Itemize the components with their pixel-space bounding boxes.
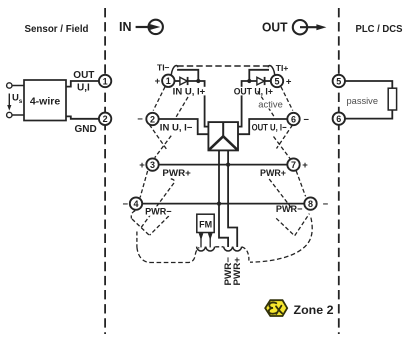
label OUT U, I+ xyxy=(233,87,274,96)
svg-text:PWR+: PWR+ xyxy=(162,168,191,179)
svg-text:Sensor / Field: Sensor / Field xyxy=(25,23,89,35)
FM arrow left xyxy=(199,233,204,248)
label PWR- left xyxy=(144,206,174,216)
svg-text:TI+: TI+ xyxy=(276,63,289,73)
terminal 7 xyxy=(287,158,299,170)
source terminal upper xyxy=(7,83,12,88)
plug contact cup 3 xyxy=(224,247,233,251)
svg-text:5: 5 xyxy=(336,76,341,86)
terminal 4 xyxy=(130,197,142,209)
dashed jumper terminal 7 to 8 xyxy=(296,171,305,197)
dashed jumper PWR+ label to lower left xyxy=(140,179,175,230)
diode D1 xyxy=(180,77,188,85)
terminal 2 xyxy=(146,113,158,125)
terminal 1 on field boundary xyxy=(99,75,111,87)
svg-text:8: 8 xyxy=(308,199,313,209)
svg-text:1: 1 xyxy=(103,76,108,86)
wire box OUT to terminal 1 xyxy=(66,81,99,87)
dashed harness curve from terminal 8 xyxy=(250,218,312,263)
dashed test link TI- to TI+ xyxy=(177,65,268,67)
wire diode D2 to terminal 5 xyxy=(265,80,271,82)
passive load resistor xyxy=(388,88,396,110)
svg-text:OUT: OUT xyxy=(262,21,288,35)
svg-text:active: active xyxy=(258,99,283,110)
terminal 3 xyxy=(146,158,158,170)
terminal 5 on plc boundary xyxy=(333,75,345,87)
svg-text:−: − xyxy=(323,199,329,210)
dashed jumper terminal 2 to 3 arm b xyxy=(155,136,172,158)
svg-text:IN: IN xyxy=(119,20,132,34)
wire terminal 2 to amplifier xyxy=(159,119,209,134)
FM arrow right xyxy=(208,233,213,248)
svg-text:+: + xyxy=(286,76,292,87)
dashed jumper PWR- label to vee xyxy=(150,216,169,235)
svg-text:4: 4 xyxy=(133,199,138,209)
svg-text:2: 2 xyxy=(103,114,108,124)
svg-text:6: 6 xyxy=(336,114,341,124)
svg-text:GND: GND xyxy=(75,124,97,135)
dashed jumper below terminal 4 xyxy=(132,219,149,235)
PWR+ rail terminal 3 to terminal 7 xyxy=(159,164,287,166)
wire terminal 1 to diode xyxy=(175,80,180,82)
svg-text:−: − xyxy=(123,199,129,210)
plug contact cup 4 xyxy=(233,247,242,251)
svg-text:TI−: TI− xyxy=(157,63,170,73)
dashed jumper terminal 6 to 7 arm b xyxy=(274,137,291,159)
svg-text:OUT U, I+: OUT U, I+ xyxy=(234,86,274,97)
svg-text:OUT U, I−: OUT U, I− xyxy=(252,123,287,134)
dashed vee below PWR- right xyxy=(276,214,309,236)
svg-text:OUT: OUT xyxy=(73,70,94,81)
bypass wire TI+ xyxy=(249,70,269,80)
svg-text:PWR+: PWR+ xyxy=(232,257,242,286)
dashed jumper terminal 2 to 3 arm a xyxy=(149,125,166,150)
wire amplifier output to diode D2 xyxy=(238,81,257,127)
terminal 6 on plc boundary xyxy=(333,112,345,124)
wire diode to amplifier input xyxy=(188,81,209,127)
dashed harness left vertical xyxy=(136,232,138,248)
wire source to 4-wire box xyxy=(12,85,24,87)
dashed jumper terminal 5 to 6 xyxy=(281,87,293,111)
svg-text:PWR−: PWR− xyxy=(145,207,172,218)
svg-text:4-wire: 4-wire xyxy=(30,95,61,107)
Us voltage arrow xyxy=(7,94,11,111)
source terminal lower xyxy=(7,112,12,117)
bypass wire TI- xyxy=(177,70,198,80)
wire xyxy=(12,114,24,116)
supply leg left from amplifier xyxy=(219,150,228,247)
dashed harness left drop xyxy=(131,211,135,219)
terminal 5 xyxy=(271,75,283,87)
dashed harness bottom left run xyxy=(137,247,199,263)
wire amplifier to terminal 6 xyxy=(238,119,287,134)
supply leg right from amplifier xyxy=(228,150,237,247)
diode D2 xyxy=(257,77,265,85)
svg-text:+: + xyxy=(155,76,161,87)
svg-text:6: 6 xyxy=(291,114,296,124)
svg-text:Zone 2: Zone 2 xyxy=(294,303,334,317)
dashed jumper PWR+ right to PWR- right xyxy=(269,179,292,209)
svg-text:+: + xyxy=(302,160,308,171)
FM box xyxy=(197,214,214,232)
svg-text:1: 1 xyxy=(166,76,171,86)
svg-text:−: − xyxy=(137,114,143,125)
dashed jumper inner right rows 1-2 xyxy=(258,91,274,116)
plc-side boundary dashed line xyxy=(338,8,340,334)
test hook TI+ xyxy=(268,66,274,75)
dashed jumper terminal 6 to 7 arm a xyxy=(277,125,293,149)
junction node before D2 xyxy=(247,79,251,83)
dashed jumper terminal 3 to 4 xyxy=(140,171,148,198)
svg-text:U,I: U,I xyxy=(77,83,90,94)
plug contact cup 1 xyxy=(197,247,206,251)
icon OUT arrow-out-of-circle xyxy=(293,20,327,34)
plug contact cup 2 xyxy=(206,247,215,251)
svg-text:+: + xyxy=(139,160,145,171)
terminal 6 xyxy=(287,113,299,125)
dashed jumper inner left rows 1-2 xyxy=(176,97,188,117)
svg-text:−: − xyxy=(303,114,309,125)
wire terminal 5 to passive load xyxy=(345,81,392,88)
Ex hexagon badge xyxy=(265,300,287,316)
svg-text:7: 7 xyxy=(291,160,296,170)
junction leg right on PWR+ rail xyxy=(226,163,230,167)
terminal 2 on field boundary xyxy=(99,113,111,125)
junction node after D1 xyxy=(196,79,200,83)
svg-text:PLC / DCS: PLC / DCS xyxy=(356,23,403,35)
svg-text:passive: passive xyxy=(347,96,379,107)
field-side boundary dashed line xyxy=(104,8,106,334)
dashed jumper terminal 1 to 2 xyxy=(153,87,165,111)
isolation amplifier block xyxy=(208,122,238,150)
label active xyxy=(257,100,285,109)
svg-text:PWR+: PWR+ xyxy=(260,168,286,179)
svg-text:s: s xyxy=(19,98,23,105)
terminal 1 xyxy=(162,75,174,87)
svg-text:3: 3 xyxy=(150,160,155,170)
svg-text:2: 2 xyxy=(150,114,155,124)
junction leg left on PWR- rail xyxy=(217,202,221,206)
dashed bus between cups xyxy=(215,246,223,248)
svg-text:IN U, I+: IN U, I+ xyxy=(173,87,206,98)
svg-text:5: 5 xyxy=(274,76,279,86)
test hook TI- xyxy=(171,66,177,75)
svg-text:FM: FM xyxy=(199,219,212,229)
dashed uptick right of cups xyxy=(242,247,249,261)
terminal 8 xyxy=(304,197,316,209)
icon IN arrow-into-circle xyxy=(136,20,163,34)
svg-text:IN U, I−: IN U, I− xyxy=(160,123,193,134)
label IN U, I+ xyxy=(172,87,206,96)
transmitter 4-wire box xyxy=(24,80,66,121)
wire passive load to terminal 6 xyxy=(345,110,392,119)
PWR- rail terminal 4 to terminal 8 xyxy=(142,203,304,205)
wire box GND to terminal 2 xyxy=(66,116,99,118)
